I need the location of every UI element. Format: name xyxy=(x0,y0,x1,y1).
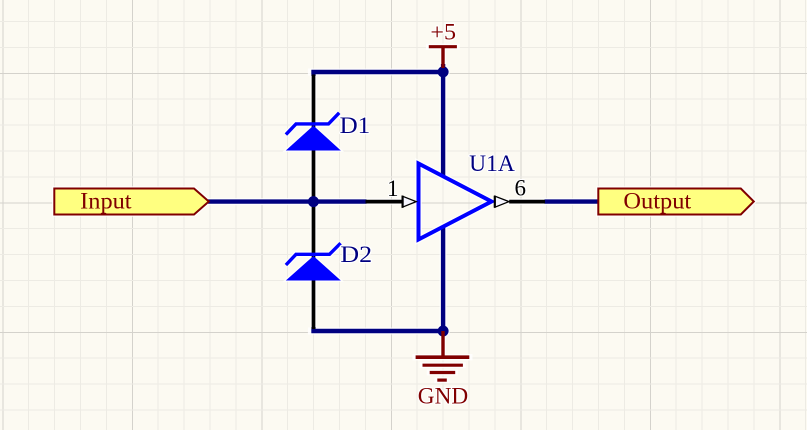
junction: +5 rail node xyxy=(438,66,449,77)
pin: shared vertical pin line of D1/D2 (black) xyxy=(312,75,316,330)
svg-text:GND: GND xyxy=(418,383,468,408)
svg-text:1: 1 xyxy=(387,176,399,201)
junction: D1/D2 node on input net xyxy=(308,196,319,207)
wire: pin 6 to Output port xyxy=(545,199,600,203)
wire: V- vertical from U1A bottom edge to GND junction xyxy=(441,227,445,334)
zener diode D2 xyxy=(286,243,341,280)
pin 1 line xyxy=(366,200,403,204)
wire: top rail from D1 corner to +5 junction xyxy=(311,70,445,74)
svg-text:6: 6 xyxy=(514,176,526,201)
pin 1 arrow xyxy=(402,196,416,207)
wire: bottom rail from D2 corner to GND junction xyxy=(311,329,445,333)
svg-text:D1: D1 xyxy=(340,113,371,138)
svg-text:D2: D2 xyxy=(340,242,372,267)
port Input xyxy=(54,189,209,215)
ground symbol GND xyxy=(416,331,470,408)
junction: GND rail node xyxy=(438,326,449,337)
op-amp U1A triangle body xyxy=(419,164,492,240)
zener diode D1 xyxy=(286,113,341,151)
power symbol +5 xyxy=(429,20,457,68)
pin 6 arrow xyxy=(495,196,509,207)
pin 6 line xyxy=(509,200,545,204)
port Output xyxy=(598,189,754,215)
svg-text:Output: Output xyxy=(623,189,691,214)
wire: V+ vertical from +5 junction into U1A top edge xyxy=(441,64,445,177)
wire: corner stub down toward D1 pin xyxy=(311,70,315,76)
svg-text:+5: +5 xyxy=(430,20,456,45)
wire: corner stub up toward D2 pin xyxy=(311,327,315,333)
svg-text:Input: Input xyxy=(80,189,132,214)
svg-text:U1A: U1A xyxy=(469,151,515,176)
wire: Input port to pin 1 xyxy=(208,199,367,203)
